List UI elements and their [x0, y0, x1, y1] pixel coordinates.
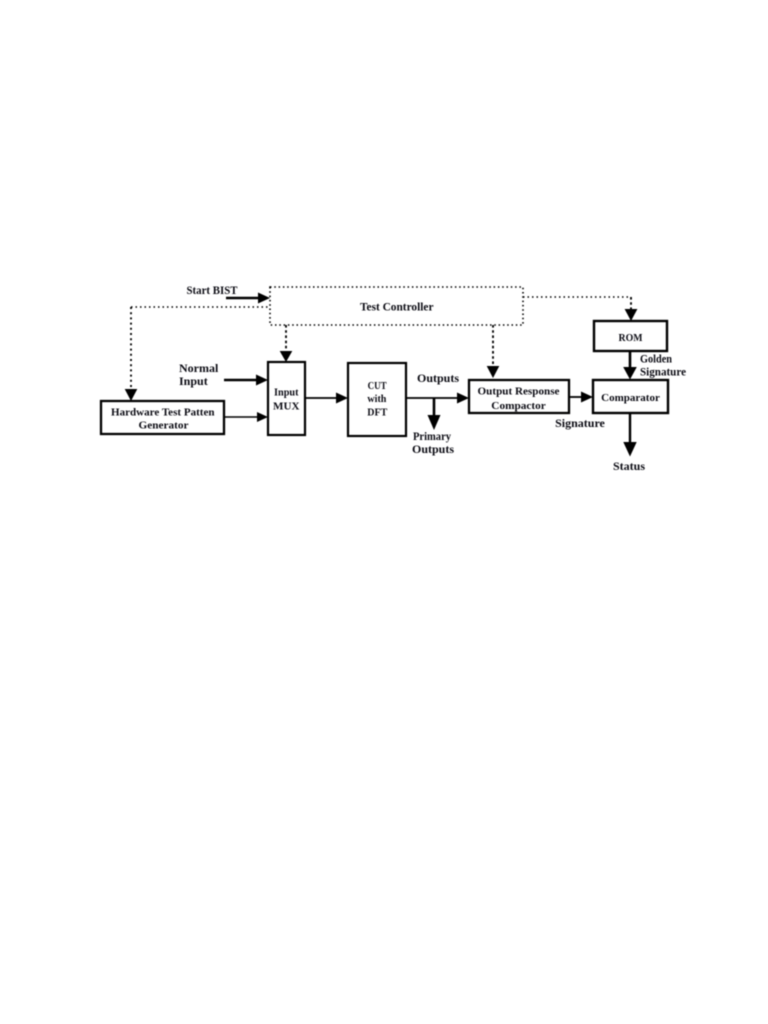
svg-text:Status: Status: [613, 459, 645, 473]
svg-text:Input: Input: [274, 387, 299, 399]
wire dashed vertical from Test Controller into Input MUX: [285, 325, 287, 352]
wire dotted horizontal to right from Test Controller toward ROM: [523, 296, 631, 298]
svg-text:Generator: Generator: [139, 420, 189, 432]
svg-text:with: with: [367, 393, 386, 405]
svg-text:Outputs: Outputs: [412, 442, 454, 456]
svg-text:Start BIST: Start BIST: [187, 283, 238, 297]
ROM box: [594, 321, 667, 351]
svg-text:Hardware Test Patten: Hardware Test Patten: [111, 406, 215, 418]
comparator box: [593, 380, 668, 413]
wire dotted horizontal to left from Test Controller: [131, 306, 270, 308]
wire branch down to primary outputs: [428, 398, 441, 430]
output response compactor box: [469, 380, 569, 413]
svg-text:ROM: ROM: [619, 332, 644, 344]
svg-text:Golden: Golden: [640, 352, 672, 366]
svg-text:Test Controller: Test Controller: [360, 300, 434, 314]
input MUX box: [268, 362, 305, 435]
svg-text:MUX: MUX: [273, 401, 300, 413]
svg-text:Signature: Signature: [640, 365, 687, 379]
wire dashed vertical from Test Controller into Output Response Compactor: [492, 325, 494, 367]
wire arrow from compactor into comparator: [569, 392, 593, 403]
svg-text:Signature: Signature: [555, 416, 605, 430]
svg-text:CUT: CUT: [368, 380, 388, 392]
wire from CUT to Output Response Compactor: [406, 393, 469, 404]
wire arrow from Input MUX into CUT: [305, 393, 348, 404]
svg-text:Output Response: Output Response: [478, 386, 560, 398]
wire from ROM into comparator: [623, 351, 637, 380]
wire dotted vertical down to Hardware Test Pattern Generator: [130, 307, 132, 390]
hardware test pattern generator box: [101, 401, 224, 434]
svg-text:Normal: Normal: [179, 361, 219, 375]
wire from comparator down to status: [623, 413, 636, 457]
svg-text:Primary: Primary: [413, 429, 451, 443]
wire normal input arrow into Input MUX: [224, 375, 268, 386]
wire dashed vertical down into ROM: [630, 297, 632, 310]
svg-text:Outputs: Outputs: [417, 371, 459, 385]
svg-text:Compactor: Compactor: [491, 400, 546, 412]
svg-text:DFT: DFT: [367, 406, 388, 418]
wire start-bist arrow into Test Controller: [226, 293, 270, 304]
svg-text:Input: Input: [179, 374, 208, 388]
wire arrow from generator into Input MUX: [224, 412, 268, 422]
CUT with DFT box: [348, 363, 406, 436]
test controller box (dotted): [270, 287, 523, 325]
svg-text:Comparator: Comparator: [601, 392, 660, 404]
